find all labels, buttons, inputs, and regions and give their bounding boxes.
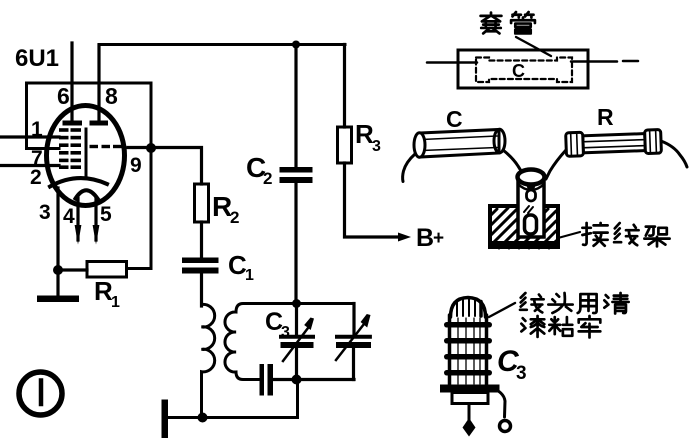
node top rail C2 junction — [292, 41, 300, 49]
sleeve left lead — [427, 61, 477, 64]
ground bar under R1 — [37, 296, 79, 303]
B+ arrow — [398, 233, 411, 242]
hanzi lao of varnish note line2 — [579, 316, 601, 337]
svg-text:4: 4 — [63, 205, 75, 228]
wire pin2 input — [0, 164, 59, 167]
resistor R3 — [343, 45, 346, 128]
node pin9 junction — [146, 143, 156, 153]
svg-text:8: 8 — [105, 83, 118, 109]
heater pin5 lead arrow — [94, 198, 97, 240]
fixed padder capacitor — [260, 364, 265, 396]
sleeve illustration outer tube — [458, 50, 588, 88]
svg-text:B: B — [416, 224, 434, 252]
pin 6 plate bar — [63, 121, 83, 126]
coil form base — [452, 393, 488, 404]
leader line to jiexianjia text — [558, 232, 580, 238]
ground bar left of coil — [162, 400, 169, 439]
resistor left lead to post — [546, 150, 566, 179]
svg-text:6: 6 — [57, 83, 70, 109]
hanzi qi of varnish note line2 — [521, 316, 544, 337]
node coil ground junction — [198, 413, 208, 423]
variable capacitor C3 trimmer — [295, 304, 298, 335]
sleeve right lead — [571, 60, 617, 63]
svg-text:2: 2 — [230, 208, 239, 227]
coil form flange — [440, 385, 500, 393]
tank right edge with variable capacitor main — [352, 304, 355, 336]
terminal post body — [518, 179, 544, 237]
capacitor component body — [420, 130, 499, 158]
hanzi tao of taoguan — [481, 13, 502, 34]
heater dome — [76, 190, 98, 198]
wire C1 to coil — [200, 274, 203, 307]
svg-text:2: 2 — [263, 169, 272, 188]
hanzi tou of varnish note — [548, 293, 572, 313]
leader line from taoguan text — [516, 37, 551, 56]
wire fixed cap to junction — [273, 378, 354, 381]
grid dashed line to pin 9 — [90, 145, 122, 148]
wire junction to ground — [56, 270, 59, 296]
svg-text:3: 3 — [39, 201, 51, 224]
resistor right lead — [661, 141, 687, 167]
tube V1 envelope — [47, 106, 125, 206]
bottom ground rail — [168, 380, 298, 418]
hanzi xian of jiexianjia — [614, 223, 639, 245]
inductor L2 secondary coil with tank top wire — [225, 304, 354, 380]
wire top supply rail — [99, 43, 345, 46]
svg-text:1: 1 — [111, 294, 120, 311]
svg-text:5: 5 — [100, 203, 112, 226]
capacitor C1 — [182, 258, 219, 264]
svg-text:1: 1 — [245, 267, 254, 284]
svg-text:3: 3 — [372, 138, 381, 155]
sleeve dashed capacitor inside — [476, 58, 572, 83]
arrow of main tuning capacitor — [336, 324, 364, 360]
hanzi xian of varnish note — [520, 293, 544, 312]
coil form C3 dome top — [451, 298, 486, 318]
node tank top junction — [292, 299, 301, 308]
resistor R2 — [195, 184, 209, 222]
wire R2 to C1 — [200, 222, 203, 258]
wire pin8 lead up to rail — [97, 45, 100, 122]
arrow of trimmer C3 — [283, 328, 308, 361]
resistor R1 — [87, 262, 127, 278]
figure number circle 1 — [19, 372, 62, 415]
hanzi zhan of varnish note line2 — [549, 317, 572, 336]
hanzi qing of varnish note — [604, 293, 628, 313]
svg-text:3: 3 — [516, 363, 527, 384]
pin 8 plate bar — [90, 121, 109, 126]
hanzi jie of jiexianjia — [582, 223, 607, 246]
node tank bottom junction — [292, 375, 302, 385]
svg-text:3: 3 — [281, 324, 290, 341]
inductor L1 primary coil — [202, 289, 215, 418]
wire pin6 lead up — [70, 43, 73, 122]
svg-text:C: C — [512, 61, 525, 81]
svg-text:2: 2 — [30, 166, 42, 189]
wire pin9 to R2 corner — [128, 148, 202, 185]
cathode arc — [50, 178, 107, 186]
svg-text:9: 9 — [130, 154, 142, 177]
grid dashes column rows — [59, 128, 81, 169]
svg-text:+: + — [433, 228, 444, 249]
wire pin1 input — [0, 135, 59, 138]
capacitor right lead to post — [503, 150, 525, 178]
coil left lead with terminal — [468, 404, 471, 423]
wire R1 left — [58, 268, 87, 271]
terminal post base hatched — [490, 206, 558, 248]
node R1 cathode junction — [53, 265, 63, 275]
coil form winding ribs — [444, 322, 492, 376]
wire pin7 loop box left and top and right down to R1 — [27, 83, 152, 269]
svg-text:6U1: 6U1 — [15, 45, 59, 72]
hanzi jia of jiexianjia — [644, 227, 669, 247]
coil form body — [448, 315, 452, 385]
svg-text:1: 1 — [31, 118, 43, 141]
hanzi guan of taoguan — [511, 12, 535, 33]
resistor component body — [566, 130, 662, 157]
hanzi yong of varnish note — [578, 294, 597, 313]
wire pin3 down — [56, 188, 59, 270]
leader line from coil top to varnish note — [489, 303, 515, 317]
capacitor C2 — [294, 45, 297, 168]
tube inner screen lead — [85, 129, 88, 177]
svg-text:C: C — [446, 106, 463, 132]
coil right lead with loop terminal — [490, 387, 505, 417]
svg-text:R: R — [597, 104, 614, 130]
heater pin4 lead arrow — [76, 198, 79, 240]
capacitor left lead — [403, 154, 415, 182]
